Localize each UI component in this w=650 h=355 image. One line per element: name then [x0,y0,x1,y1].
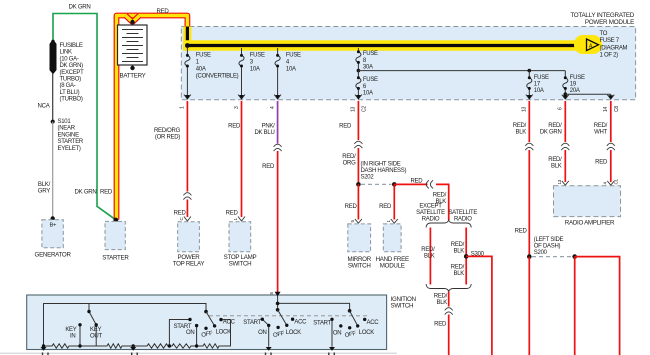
wire: RED/WHT pin14 to radio amplifier [610,101,612,182]
svg-text:1 OF 2): 1 OF 2) [600,53,619,59]
svg-text:GENERATOR: GENERATOR [35,252,72,259]
svg-text:ORG: ORG [343,160,356,166]
fuse F19 label [570,75,585,94]
fuse F8 30A [356,48,361,71]
pin entry: radio amp pin 4 [603,178,619,185]
svg-text:DK GRN: DK GRN [540,129,562,135]
svg-text:RED: RED [157,8,170,15]
pin entry: mirror switch [350,219,362,223]
arrow: TO FUSE 7 (bus continuation) [574,35,602,54]
pin entry: ignition switch pin 5 [269,292,281,297]
svg-text:WHT: WHT [594,129,607,135]
svg-text:SWITCH: SWITCH [348,263,371,270]
svg-text:DASH HARNESS): DASH HARNESS) [361,168,407,174]
label START (wafer1) [174,324,192,330]
connector: inline below merge [445,308,453,315]
svg-text:RED: RED [228,123,241,129]
svg-text:RED/: RED/ [451,242,465,248]
label TO FUSE 7 (DIAGRAM 1 OF 2) [600,31,628,59]
brace: option merge (bottom) [426,284,471,292]
label RED (stop lamp) [226,210,239,216]
svg-text:FUSE: FUSE [534,75,549,81]
svg-text:FUSE 7: FUSE 7 [600,38,620,44]
svg-text:PNK/: PNK/ [262,123,275,129]
svg-text:TURBO): TURBO) [60,77,82,83]
wire: RED/ORG fuse1 to power top relay [186,101,188,217]
svg-text:TO: TO [600,31,608,37]
wire: S200 right branch [575,257,620,355]
contact: wafer2 OFF [276,326,279,329]
node: rail junctions [42,344,199,347]
svg-text:GRY: GRY [38,188,50,195]
label START (wafer2) [243,320,261,326]
svg-text:19: 19 [570,82,577,88]
label RED (fuse4 lower) [262,164,275,170]
node: ignition feed junctions [276,302,352,313]
option labels: except satellite radio / satellite radio [416,204,477,223]
svg-text:RED/: RED/ [513,123,527,129]
contact: wafer2 ACC [291,318,294,321]
labels DK GRN / RED near starter [75,189,113,196]
brace: option split (top) [426,220,471,228]
svg-text:C2: C2 [362,106,368,112]
svg-text:ACC: ACC [367,320,380,326]
label RED (fuse3 top) [228,123,241,129]
connector: inline on relay wire [183,193,191,200]
wire: RED S202 branch to radio circuit [394,184,448,220]
svg-text:(OR RED): (OR RED) [155,134,180,140]
svg-text:S200: S200 [534,250,548,256]
wire: S200 middle leg down [574,257,576,355]
svg-text:RED/: RED/ [548,123,562,129]
label RED/ORG (above S202) [342,154,356,167]
wire: TIPM internal sub-rail from fuse 8 [358,70,565,72]
svg-text:DK BLU: DK BLU [255,130,275,136]
label RED (fuse6 top) [339,123,352,129]
switch: key-out contact set [89,304,96,347]
connector: inline on fuse6 wire [354,141,362,148]
pin exit: fuse 1 out [180,95,191,110]
svg-text:10A: 10A [250,66,260,72]
pin exit: fuse 6 out pin 13 [351,95,368,113]
svg-text:13: 13 [522,106,528,112]
pin entry: hand free module [386,219,398,223]
svg-text:ACC: ACC [294,319,307,325]
svg-text:ACC: ACC [223,319,236,325]
svg-text:RED: RED [595,160,608,166]
fuse F1 40A (CONVERTIBLE) [185,48,190,98]
switch: ignition wafer 3 arm [350,311,360,328]
pin entry: radio amp pin 13 [557,179,569,185]
svg-text:ON: ON [333,331,341,337]
label LOCK (wafer1) [216,330,231,336]
svg-text:FUSE: FUSE [250,52,265,58]
pin exit: pin 14 [603,95,620,112]
svg-text:NCA: NCA [38,102,51,109]
svg-text:OF DASH): OF DASH) [534,243,561,249]
pin exit: fuse 4 out [270,95,281,110]
svg-text:RED: RED [515,229,528,235]
svg-text:POWER MODULE: POWER MODULE [585,19,634,26]
svg-text:10A: 10A [286,66,296,72]
svg-text:TOP RELAY: TOP RELAY [173,261,205,268]
connector: inline on branch (horizontal) [426,180,433,188]
svg-text:(8 GA-: (8 GA- [60,83,76,89]
pin exit: wafer3 output [328,347,335,355]
fuse F1 label [196,52,239,79]
label OFF (wafer2) [273,331,286,339]
contact: wafer3 ON [339,324,342,327]
svg-text:(LEFT SIDE: (LEFT SIDE [534,237,564,243]
label ACC (wafer3) [367,320,380,326]
connector: inline on fuse4 wire [274,144,282,151]
contact: wafer2 START/ON output [261,318,271,347]
svg-text:14: 14 [603,106,609,112]
svg-text:FUSE: FUSE [363,77,378,83]
label RED (hand free) [379,204,392,210]
svg-text:RED/: RED/ [451,264,465,270]
svg-text:B+: B+ [49,223,57,229]
label HAND FREE MODULE [376,256,409,270]
wire: ignition feed internal [278,296,350,311]
svg-text:S202: S202 [361,175,375,181]
label ACC (wafer2) [294,319,307,325]
svg-text:SWITCH: SWITCH [391,302,414,309]
fuse F17 label [534,75,549,94]
label POWER TOP RELAY [173,254,205,268]
wire: left internal rail [44,304,207,347]
svg-text:SATELLITE: SATELLITE [416,210,445,216]
switch: ignition wafer 1 arm [206,312,216,328]
label RED (mirror) [345,204,358,210]
label MIRROR SWITCH [347,256,371,270]
pin exit: fuse 3 out [234,95,245,110]
label GENERATOR [35,252,72,259]
fuse F6 10A [356,71,361,98]
svg-text:FUSE: FUSE [196,52,211,58]
splice label S200 [534,237,564,256]
label DK GRN (top) [69,4,91,11]
pin exit: fuse 19 out pin 6 [558,95,569,110]
svg-text:KEY: KEY [65,327,76,333]
contact: wafer3 ACC [363,318,366,321]
svg-text:BLK: BLK [424,254,435,260]
svg-text:(EXCEPT: (EXCEPT [60,70,85,76]
svg-text:EXCEPT: EXCEPT [419,204,442,210]
label LOCK (wafer2) [286,330,301,336]
label S300 [471,251,485,257]
label BLK/GRY [38,181,51,195]
pin exit: ignition ground left [41,347,49,355]
label RED/BLK (above brace) [433,193,447,206]
wire: RED/BLK left option branch [429,228,431,285]
module M2 box: hand free module [383,224,401,252]
label ACC (wafer1) [223,319,236,325]
label RADIO AMPLIFIER [565,219,615,226]
svg-text:13: 13 [557,179,562,184]
node: sub-rail junction for fuse 17 [528,69,532,73]
fuse F6 label [363,77,378,96]
splice label S202 [361,162,407,181]
contact: wafer1 ON [195,324,198,346]
bus: main hot bus B+ (yellow highlighted) [183,43,587,48]
label OFF (wafer1) [201,331,214,339]
fuse F3 10A [239,48,244,98]
svg-text:30A: 30A [363,64,373,70]
wire: S300 branch to right and down [466,256,492,355]
wire: S200 left leg down [528,257,530,355]
label RED (relay) [174,210,187,216]
svg-text:RADIO: RADIO [422,217,440,223]
wire: RED fuse4 to ignition switch [277,151,279,295]
svg-text:SWITCH: SWITCH [229,261,252,268]
svg-text:STARTER: STARTER [58,139,84,145]
svg-text:S300: S300 [471,251,485,257]
svg-text:IN: IN [70,333,75,339]
node S200 (splice, dashed bridge) [527,254,577,259]
switch SW1 box: stop lamp switch [229,222,251,252]
battery B1 [118,22,148,70]
label RED/BLK (left branch) [421,247,435,260]
linkage: dashed mechanical link [209,315,368,317]
svg-text:RED: RED [174,210,187,216]
svg-text:13: 13 [351,106,357,112]
wire: cut-off diagram edge below ignition box [0,352,397,354]
svg-text:BLK: BLK [515,129,526,135]
node S101 [51,120,55,124]
label RED (merged lower) [434,322,447,328]
wire: RED fuse3 to stop lamp switch [241,101,243,217]
svg-text:C8: C8 [614,106,620,112]
contact: wafer1 ACC bracket [219,318,230,346]
svg-text:BLK: BLK [436,300,447,306]
label OFF (wafer3) [344,331,357,339]
svg-text:OUT: OUT [90,333,102,339]
label RED/BLK (merged) [434,294,448,307]
TIPM title [570,12,634,26]
S101 label [58,119,84,152]
svg-text:LOCK: LOCK [286,330,301,336]
node: generator B+ terminal [51,216,55,220]
wire: RED S202 to mirror switch [357,184,359,219]
node: fuse19 output junction [564,92,568,96]
svg-text:ON: ON [258,330,266,336]
svg-text:(NEAR: (NEAR [58,126,76,132]
svg-text:KEY: KEY [90,327,101,333]
node: starter terminal junction [113,218,118,223]
svg-text:RADIO: RADIO [454,217,472,223]
fuse F3 label [250,52,265,72]
svg-text:DK GRN: DK GRN [75,189,97,196]
svg-text:(10 GA-: (10 GA- [60,56,79,62]
svg-text:RED: RED [226,210,239,216]
svg-text:DK GRN): DK GRN) [60,63,84,69]
wire: RED/BLK right option branch [465,228,467,285]
svg-text:LOCK: LOCK [359,330,374,336]
wire: NCA black segment fusible link to S101 [52,74,54,122]
fuse F17 10A [527,71,532,98]
fuse F19 20A [563,71,568,98]
wire: DK GRN feed from fusible link to starter (green) [53,14,116,220]
label ON (wafer2) [258,330,266,336]
connector: inline on fuse19 wire [561,143,569,150]
svg-text:RED/: RED/ [342,154,356,160]
contact: wafer1 OFF [204,327,207,330]
switch: key-in contact [78,323,81,346]
svg-text:FUSIBLE: FUSIBLE [60,43,83,49]
svg-text:RED: RED [262,164,275,170]
svg-text:EYELET): EYELET) [58,146,81,152]
svg-text:RED/: RED/ [548,157,562,163]
svg-text:START: START [313,321,331,327]
svg-text:RED: RED [379,204,392,210]
resistor rail: ballast zigzag [44,320,231,349]
TIPM box: totally integrated power module [181,27,635,100]
pin entry: power top relay [179,217,191,222]
svg-text:FUSE: FUSE [286,52,301,58]
label RED (above S200) [515,229,528,235]
svg-text:BLK: BLK [453,249,464,255]
svg-text:RED/: RED/ [421,247,435,253]
svg-text:RED/: RED/ [434,294,448,300]
svg-text:BATTERY: BATTERY [119,72,145,79]
node S202 (splice, dashed bridge) [356,182,397,187]
connector: inline on pin14 wire [607,143,615,150]
ignition switch label [391,296,416,309]
wire: battery feed inside TIPM (black w/ yellow halo) [183,27,191,47]
pin exit: rail tap [130,346,138,355]
pin entry: stop lamp switch [233,217,245,222]
svg-text:RED/: RED/ [594,123,608,129]
svg-text:BLK: BLK [551,164,562,170]
svg-text:RED/: RED/ [433,193,447,199]
label RED/BLK (fuse17) [513,123,527,135]
IGNITION SWITCH box [27,295,387,350]
svg-text:C1: C1 [614,178,619,184]
svg-text:S101: S101 [58,119,72,125]
svg-text:RED: RED [434,322,447,328]
label NCA [38,102,51,109]
node S300 [464,254,469,259]
label ON (wafer3) [333,331,341,337]
pin exit: fuse 17 out pin 13 [522,95,533,113]
svg-text:LOCK: LOCK [216,330,231,336]
svg-text:(IN RIGHT SIDE: (IN RIGHT SIDE [361,162,401,168]
label RED/WHT [594,123,608,135]
svg-text:RED/ORG: RED/ORG [154,128,181,134]
label RED/BLK (amp left pin) [548,157,562,170]
fusible link value label [60,43,85,103]
label KEY OUT [90,327,102,340]
svg-text:DK GRN: DK GRN [69,4,91,11]
svg-text:(DIAGRAM: (DIAGRAM [600,45,628,51]
svg-text:FUSE: FUSE [363,51,378,57]
svg-text:START: START [243,320,261,326]
svg-text:BLK: BLK [453,271,464,277]
label START (wafer3) [313,321,331,327]
wire: RED/DK GRN fuse19 to radio amplifier [564,101,566,182]
svg-text:10A: 10A [363,90,373,96]
wire: BLK/GRY S101 to generator [52,122,54,218]
generator G1 box [42,220,63,248]
label RED (S202 branch) [411,179,424,185]
amplifier A1 box: radio amplifier [554,186,621,217]
contact: wafer3 OFF [348,326,351,329]
svg-text:10A: 10A [534,88,544,94]
label PNK/DK BLU [255,123,276,136]
label RED (top) [157,8,170,15]
label STARTER [102,254,129,261]
relay K1 box: power top relay [178,222,200,252]
wire: RED/BLK fuse17 to S200 [528,101,530,257]
label RED (amp right pin) [595,160,608,166]
switch: ignition wafer 2 arm [278,310,289,327]
svg-text:(TURBO): (TURBO) [60,97,83,103]
label ON (wafer1) [186,330,194,336]
label RED/ORG (OR RED) [154,128,181,141]
svg-text:STARTER: STARTER [102,254,129,261]
svg-text:(CONVERTIBLE): (CONVERTIBLE) [196,73,239,79]
wire: RED fuse6 to S202 [357,101,359,184]
svg-text:RADIO AMPLIFIER: RADIO AMPLIFIER [565,219,615,226]
svg-text:RED: RED [411,179,424,185]
wire: RED battery positive feed (yellow w/ red outline) [117,16,188,220]
fusible link FL (black bar) [50,40,56,74]
svg-text:FUSE: FUSE [570,75,585,81]
switch SW2 box: mirror switch [348,224,371,252]
svg-text:RED: RED [100,189,113,196]
contact: wafer3 START output [330,318,333,347]
svg-text:20A: 20A [570,88,580,94]
wire: PNK/DK BLU fuse4 upper segment [276,101,278,144]
label KEY IN [65,327,76,340]
svg-text:ON: ON [186,330,194,336]
svg-text:TOTALLY INTEGRATED: TOTALLY INTEGRATED [570,12,634,19]
label RED/BLK (right branch above S300) [451,242,465,255]
label LOCK (wafer3) [359,330,374,336]
svg-text:17: 17 [534,82,541,88]
label BATTERY [119,72,145,79]
fuse F8 label [363,51,378,70]
svg-text:MODULE: MODULE [380,263,405,270]
wire: fuse19 branch rail to pin 14 [565,94,611,98]
svg-text:LT BLU): LT BLU) [60,90,80,96]
node: group1 pivot [204,310,208,314]
wire: RED/BLK merged to ignition area [448,292,450,355]
starter M1 box [105,221,125,249]
svg-text:LINK: LINK [60,50,72,56]
pin exit: wafer2 output [265,347,272,355]
svg-text:ENGINE: ENGINE [58,132,80,138]
label RED/BLK (below S300) [451,264,465,277]
svg-text:RED: RED [345,204,358,210]
label STOP LAMP SWITCH [224,254,257,268]
fuse F4 10A [275,48,280,98]
wire: RED S202 to hand free module [393,184,395,219]
contact: wafer1 START bracket [169,318,191,346]
svg-text:40A: 40A [196,66,206,72]
node: fuse8 output junction [357,69,361,73]
svg-text:SATELLITE: SATELLITE [448,210,477,216]
fuse F4 label [286,52,301,72]
svg-text:RED: RED [339,123,352,129]
label RED/DK GRN [540,123,562,135]
connector: inline on fuse17 wire [525,143,533,150]
